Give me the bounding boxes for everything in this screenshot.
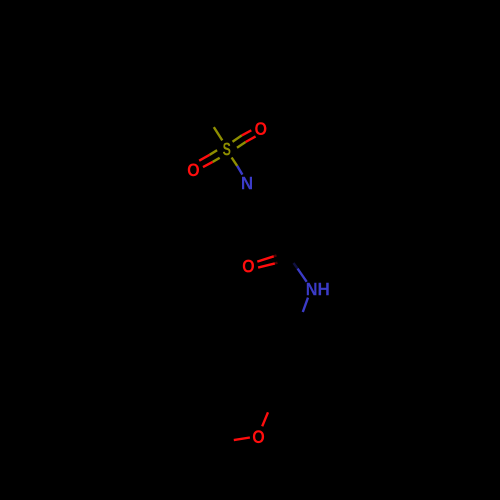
atom O amide carbonyl bbox=[243, 260, 254, 273]
bond C=O amide line b (O half) bbox=[258, 263, 275, 267]
bond O-CH3 methoxy (O half) bbox=[234, 438, 250, 441]
bond C(=O)-N amide (N half) bbox=[298, 269, 307, 282]
atom O methoxy bbox=[253, 430, 264, 443]
bond C(aryl)-O methoxy (O half) bbox=[262, 412, 268, 426]
bond S=O1 line a (O half) bbox=[242, 130, 252, 135]
atom N of amide NH bbox=[307, 283, 317, 295]
bond S=O2 line a (O half) bbox=[199, 155, 209, 161]
atom S sulfonyl bbox=[223, 143, 231, 156]
atom O2 sulfonyl lower left bbox=[188, 164, 199, 177]
bond S=O2 line b (S half) bbox=[213, 158, 220, 162]
bond S-N (N half) bbox=[237, 166, 242, 175]
bond C(=O)-N amide faint C side bbox=[294, 263, 298, 269]
bond S=O2 line b (O half) bbox=[203, 162, 213, 167]
atom N sulfonamide bbox=[242, 177, 252, 189]
atom H of amide NH bbox=[319, 283, 329, 295]
bond S=O1 line b (O half) bbox=[246, 136, 256, 142]
bond C=O amide line b fade bbox=[275, 262, 278, 265]
bond S-C(phenyl) S-half stub bbox=[214, 127, 223, 140]
bond S-N (S half) bbox=[232, 158, 238, 166]
bond C=O amide line a fade bbox=[274, 254, 277, 257]
bond S=O2 line a (S half) bbox=[210, 150, 218, 155]
atom O1 sulfonyl upper right bbox=[255, 122, 266, 135]
bond S=O1 line a (S half) bbox=[233, 135, 242, 141]
bond S=O1 line b (S half) bbox=[237, 142, 246, 148]
bond N-C(aryl) (N half) bbox=[303, 298, 308, 312]
bond C=O amide line a (O half) bbox=[257, 256, 274, 261]
